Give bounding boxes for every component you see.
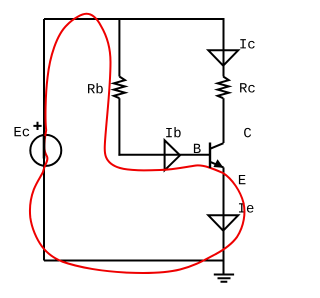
- transistor Q1 emitter diagonal: [210, 162, 224, 168]
- wire right upper (top to Rc): [223, 19, 225, 77]
- ground symbol: [214, 275, 234, 282]
- wire overlay through source circle: [43, 136, 46, 159]
- ground stub wire: [223, 261, 225, 275]
- label Ec: [15, 127, 30, 136]
- label E: [239, 175, 246, 184]
- transistor Q1 emitter arrowhead: [214, 160, 222, 167]
- red KVL loop: [30, 14, 244, 273]
- wire emitter down: [223, 167, 225, 260]
- voltage source plus sign: [33, 122, 41, 130]
- voltage source Ec circle: [30, 135, 61, 166]
- transistor Q1 collector diagonal: [210, 143, 224, 149]
- wire middle vertical (top to Rb): [118, 19, 120, 77]
- current arrow Ic: [208, 50, 238, 65]
- label Ie: [239, 203, 253, 212]
- label Rc: [240, 83, 255, 92]
- transistor Q1 base bar: [209, 143, 211, 169]
- label B: [194, 144, 201, 153]
- wire left: [43, 19, 45, 261]
- label Ib: [166, 127, 180, 137]
- resistor Rb: [114, 77, 125, 99]
- label Rb: [88, 83, 103, 93]
- label Ic: [240, 39, 254, 48]
- wire base: [118, 154, 209, 156]
- resistor Rc: [218, 77, 229, 99]
- current arrow Ie: [208, 215, 238, 230]
- label C: [244, 128, 251, 138]
- wire middle vertical (Rb to base wire): [118, 98, 120, 156]
- wire top: [44, 18, 225, 20]
- wire collector: [223, 98, 225, 143]
- current arrow Ib: [165, 140, 180, 170]
- wire bottom: [44, 260, 224, 262]
